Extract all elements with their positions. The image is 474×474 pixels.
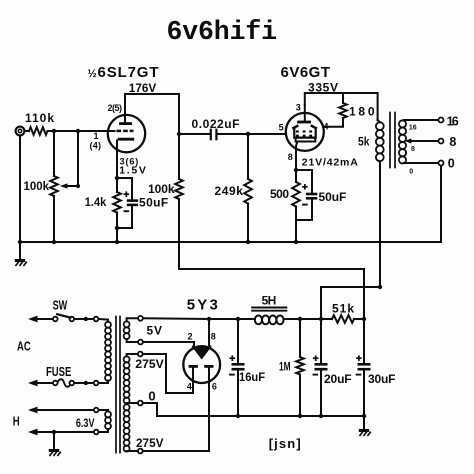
wire jack ground [19,136,21,242]
wire choke to 51k area [287,318,321,320]
svg-text:1: 1 [94,131,99,141]
svg-text:335V: 335V [308,81,338,95]
node fuse line [84,381,88,385]
transformer T2 secondary [399,120,406,163]
node bot 30uF [362,414,366,418]
resistor R9 1M bleeder [296,319,304,416]
svg-text:6v6hifi: 6v6hifi [167,17,278,47]
label 5V [147,323,163,337]
resistor R1 110k [29,127,48,135]
label 21V/42mA [302,156,358,168]
label 8 tap [411,146,415,153]
label 100k [148,182,175,196]
label AC [17,339,31,354]
label 0 tap T1 [148,388,155,403]
terminal 16 [439,118,444,123]
resistor R7 500 [292,170,300,220]
capacitor C6 30uF [356,319,371,416]
svg-text:5H: 5H [262,293,277,307]
label 100k pot [24,179,50,193]
wire pin2 filament [143,342,194,347]
AC line arrow [28,316,53,323]
resistor R6 180 screen [324,93,347,127]
node grid V2 junction [246,132,250,136]
wire 335V line [305,93,378,120]
node grid-pot junction [52,129,56,133]
pin label 4 V3 [187,382,192,392]
wire fuse to T1 [74,382,94,384]
label 51k [332,302,354,316]
wire C1 to grid V2 [218,133,286,135]
label 335V [308,81,338,95]
transformer T1 5V winding [124,318,138,342]
svg-text:0.022uF: 0.022uF [192,117,240,131]
pin label 8 V3 [211,331,216,341]
terminal T1 primary top [94,317,99,322]
svg-text:16: 16 [409,124,417,131]
svg-text:180: 180 [349,104,375,118]
svg-text:2: 2 [188,331,193,341]
wire switch to T1 [74,318,94,320]
terminal HV center [138,401,143,406]
label 1M [279,360,291,374]
node bot 20uF [319,414,323,418]
label 8 [449,135,456,149]
svg-text:H: H [13,414,20,429]
ground symbol heater [49,432,61,456]
svg-text:100k: 100k [24,179,50,193]
wire pot bottom [53,196,55,242]
svg-text:FUSE: FUSE [46,364,72,379]
transformer T1 6.3V winding [99,410,111,432]
heater line 1 [28,407,94,414]
node 51k left [319,317,323,321]
pin label 1 [94,131,99,141]
svg-text:(4): (4) [90,141,102,151]
wire 0 to ground bus [440,166,442,243]
terminal 5V top [138,316,143,321]
svg-text:6.3V: 6.3V [76,416,95,430]
wire R1 to grid [48,130,115,132]
svg-text:16: 16 [447,115,459,129]
node bus cathode2 [294,240,298,244]
svg-text:8: 8 [411,146,415,153]
capacitor C5 20uF [313,319,328,416]
wire B+ cross link [321,287,380,319]
label 16 [447,115,459,129]
label 275V top [135,357,164,371]
transformer T2 primary 5k [376,120,384,287]
svg-text:275V: 275V [135,357,164,371]
capacitor C2 50uF branch [117,178,138,228]
wire plate pin6 [143,383,209,451]
heater line 2 [28,429,94,436]
wire tap 16 [404,119,438,121]
node bus jack [18,240,22,244]
pin label 3(6) [120,156,139,166]
fuse F1 [53,379,74,387]
svg-text:0: 0 [409,169,413,176]
terminal 8 [439,139,444,144]
terminal 6.3V bottom [94,430,99,435]
svg-text:[jsn]: [jsn] [269,436,301,451]
terminal HV bottom [138,449,143,454]
svg-text:16uF: 16uF [239,370,265,384]
svg-text:8: 8 [449,135,456,149]
svg-text:5V: 5V [147,323,163,337]
label FUSE [46,364,72,379]
terminal 0 [439,161,444,166]
pin label 2(5) [108,103,123,113]
label 180 [349,104,375,118]
label 5H [262,293,277,307]
resistor R3 100k plate load [175,134,183,269]
svg-text:½6SL7GT: ½6SL7GT [88,64,159,81]
svg-text:4: 4 [187,382,192,392]
wire B+ to stage1 [179,269,364,319]
label 249k [215,184,244,198]
label 5Y3 [187,296,218,313]
pin label 5 [279,123,284,133]
svg-text:SW: SW [53,297,68,312]
label 6V6GT [281,64,331,81]
label 1.4k [85,195,107,209]
label 5k [358,134,370,148]
svg-text:21V/42mA: 21V/42mA [302,156,358,168]
svg-text:275V: 275V [136,436,164,450]
title [167,17,278,47]
label 275V bottom [136,436,164,450]
label 16 tap [409,124,417,131]
label 50uF [139,196,168,210]
terminal 6.3V top [94,408,99,413]
node heater ground [52,430,56,434]
svg-text:3: 3 [296,103,301,113]
transformer T1 primary [98,319,111,383]
svg-text:1M: 1M [279,360,291,374]
label SW [53,297,68,312]
pin label 3 [296,103,301,113]
svg-text:6V6GT: 6V6GT [281,64,331,81]
wire upper ground bus [19,241,441,243]
node A rail [236,317,240,321]
fuse line arrow [28,380,53,387]
svg-text:AC: AC [17,339,31,354]
resistor R8 51k [321,315,364,323]
node cathode top [115,176,119,180]
node SW line [84,317,88,321]
resistor R4 249k grid leak [244,134,252,242]
terminal T1 primary bottom [94,381,99,386]
svg-text:5k: 5k [358,134,370,148]
wire rail 5V to choke [143,317,251,320]
svg-text:2(5): 2(5) [108,103,123,113]
svg-text:51k: 51k [332,302,354,316]
node bus pot [52,240,56,244]
node bot 1M [298,414,302,418]
wire HV center tap [143,403,157,416]
node bus 249k [246,240,250,244]
capacitor C4 16uF [229,319,244,416]
svg-text:50uF: 50uF [139,196,168,210]
transformer T1 HV winding [124,354,138,452]
node cathode bottom [115,226,119,230]
wire lower ground bus [157,415,364,417]
terminal 5V bottom [138,340,143,345]
label 0.022uF [192,117,240,131]
wire cathode V2 [295,151,297,170]
pin label 2 V3 [188,331,193,341]
potentiometer R2 100k [50,176,58,196]
svg-text:5Y3: 5Y3 [187,296,218,313]
label 16uF [239,370,265,384]
svg-text:30uF: 30uF [368,372,396,386]
terminal HV top [138,352,143,357]
wire jack to R1 [25,130,29,132]
svg-text:8: 8 [211,331,216,341]
label 1/2 6SL7GT [88,64,159,81]
label 110k [25,111,54,125]
label 30uF [368,372,396,386]
switch SW [53,314,74,321]
svg-text:1.4k: 1.4k [85,195,107,209]
tube V3 5Y3 [183,346,220,383]
svg-text:249k: 249k [215,184,244,198]
svg-text:6: 6 [212,382,217,392]
wire tap 8 [405,138,438,143]
pin label (4) [90,141,102,151]
wire tap 0 [404,162,438,164]
svg-text:5: 5 [279,123,284,133]
wire cathode to ground bus [116,228,118,242]
pin label 8 V2 [288,152,293,162]
svg-text:20uF: 20uF [324,372,352,386]
transformer T2 core [390,113,395,168]
label 20uF [324,372,352,386]
tube V1 1/2 6SL7GT [108,115,145,152]
label 1.5V [119,164,146,176]
svg-text:8: 8 [288,152,293,162]
node B+ screen [378,285,382,289]
label 50uF 2 [319,190,347,204]
capacitor C1 0.022uF [211,129,217,141]
svg-text:176V: 176V [129,81,156,95]
wire cathode2 to bus [295,220,297,242]
node pin8 rail [207,317,211,321]
pin label 4 [324,121,329,131]
wire plate V1 to 176V line [125,94,179,134]
label 0 out [448,156,455,170]
node 51k right [362,317,366,321]
choke L1 5H [251,308,287,325]
label 0 tap [409,169,413,176]
svg-text:500: 500 [270,187,289,201]
pot wiper arm [60,131,80,189]
tube V2 6V6GT [286,105,324,151]
node B rail [298,317,302,321]
wire cathode V1 [116,141,118,179]
label 500 [270,187,289,201]
capacitor C3 50uF branch [296,170,317,220]
wire plate pin4 [143,354,193,393]
node wiper junction [76,129,80,133]
label H [13,414,20,429]
resistor R5 1.4k [113,178,121,228]
label 176V [129,81,156,95]
input jack J1 [16,127,25,136]
node cathode2 top [294,168,298,172]
pin label 6 V3 [212,382,217,392]
label jsn [269,436,301,451]
node bus cathode1 [115,240,119,244]
svg-text:50uF: 50uF [319,190,347,204]
label 6.3V [76,416,95,430]
svg-text:0: 0 [148,388,155,403]
node plate-cap junction [177,132,181,136]
svg-text:110k: 110k [25,111,54,125]
svg-text:1.5V: 1.5V [119,164,146,176]
transformer T1 core [116,317,120,453]
svg-text:0: 0 [448,156,455,170]
ground symbol main [15,242,27,266]
ground symbol PSU [359,416,371,436]
wire pin8 filament [208,319,210,347]
wire pot top [53,131,55,176]
svg-text:100k: 100k [148,182,175,196]
node bot 16uF [236,414,240,418]
wire node to C1 [179,133,210,135]
